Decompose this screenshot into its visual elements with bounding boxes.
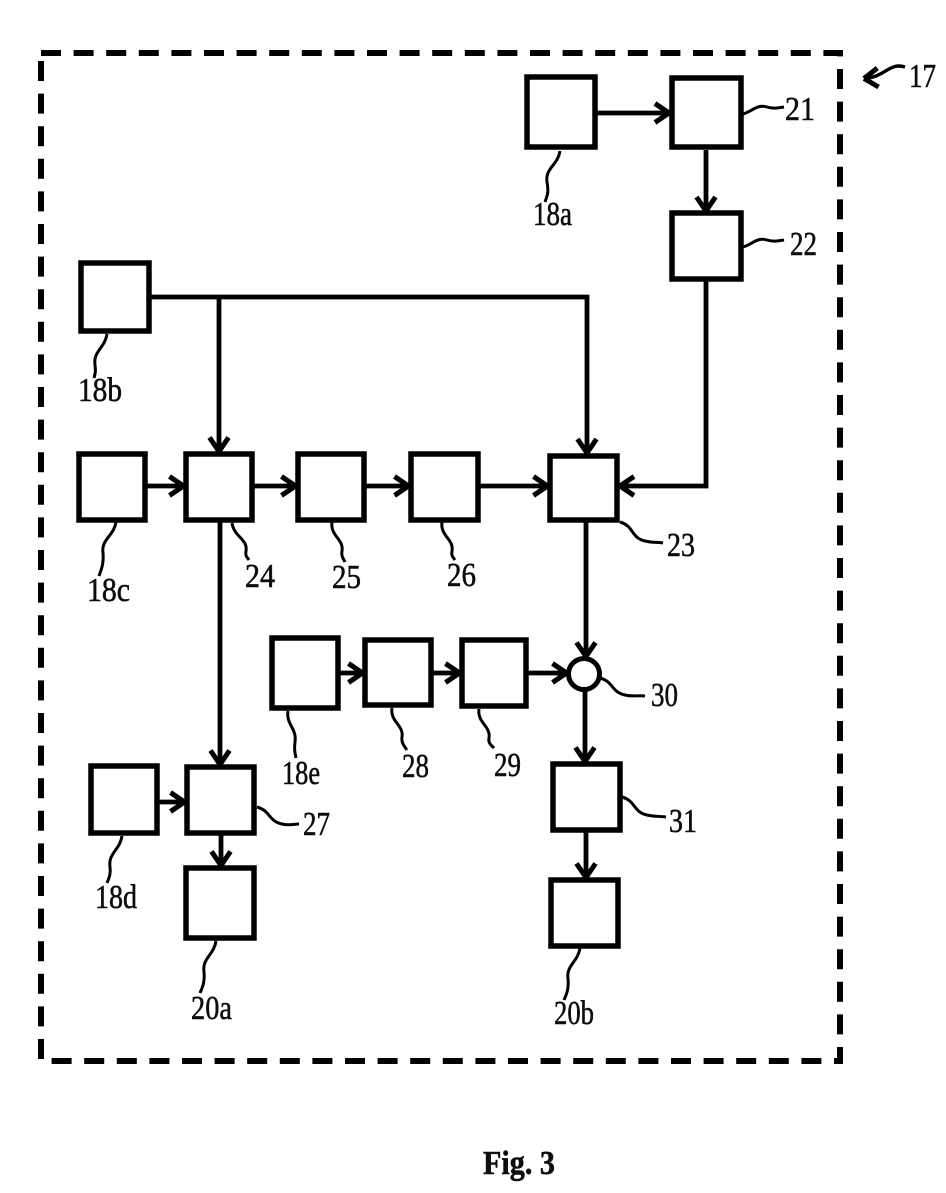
block 27: [187, 767, 254, 833]
leader line 30: [600, 678, 645, 696]
leader line 31: [622, 797, 666, 817]
dashed boundary 17: [41, 53, 840, 1061]
wire 24 to 27: [218, 521, 223, 765]
block 18c: [79, 454, 145, 520]
leader line 23: [620, 522, 663, 543]
block 20a: [186, 868, 254, 938]
svg-text:Fig. 3: Fig. 3: [483, 1145, 555, 1182]
leader line 22: [743, 239, 784, 247]
svg-text:21: 21: [785, 91, 815, 128]
leader line 25: [332, 522, 345, 562]
arrow to boundary 17: [864, 66, 905, 79]
svg-text:25: 25: [332, 559, 361, 596]
svg-text:20a: 20a: [191, 990, 232, 1027]
svg-text:18e: 18e: [282, 755, 320, 792]
block 22: [672, 213, 741, 279]
block 23: [550, 456, 617, 520]
leader line 20b: [564, 948, 580, 1000]
block 18a: [527, 77, 595, 147]
wire 22 to 23: [620, 281, 706, 486]
leader line 18a: [545, 151, 560, 202]
svg-text:26: 26: [447, 557, 476, 594]
leader line 18d: [107, 836, 122, 883]
leader line 29: [479, 709, 494, 748]
wire branch to 24: [217, 297, 222, 452]
wire 28 to 29: [431, 671, 460, 676]
block 18d: [91, 766, 157, 833]
wire 18d to 27: [157, 800, 185, 805]
block 24: [186, 454, 252, 520]
wire 31 to 20b: [584, 830, 589, 878]
block 21: [672, 78, 741, 147]
wire 18e to 28: [339, 671, 363, 676]
wire 25 to 26: [365, 484, 409, 489]
svg-text:20b: 20b: [554, 995, 594, 1032]
block 26: [411, 454, 478, 520]
wire 18a to 21: [596, 111, 669, 116]
svg-text:30: 30: [651, 677, 678, 714]
wire 24 to 25: [253, 484, 296, 489]
wire 29 to 30: [526, 671, 567, 676]
wire 27 to 20a: [219, 833, 224, 866]
wire 26 to 23: [478, 484, 548, 489]
svg-text:22: 22: [790, 226, 817, 263]
block 29: [462, 640, 526, 706]
svg-text:29: 29: [494, 747, 521, 784]
svg-text:28: 28: [402, 748, 429, 785]
svg-text:24: 24: [245, 558, 275, 595]
block 28: [365, 640, 431, 705]
svg-text:17: 17: [909, 58, 936, 95]
leader line 24: [232, 523, 249, 560]
svg-text:18d: 18d: [95, 879, 137, 916]
svg-text:23: 23: [667, 527, 695, 564]
leader line 26: [442, 522, 455, 560]
block 20b: [551, 880, 618, 946]
block 18e: [272, 638, 338, 708]
leader line 21: [743, 106, 784, 114]
leader line 18e: [288, 711, 296, 758]
block 25: [298, 454, 364, 520]
leader line 27: [257, 807, 299, 825]
wire 23 to 30: [584, 522, 589, 657]
leader line 28: [392, 708, 407, 750]
svg-text:27: 27: [303, 806, 330, 843]
svg-text:18a: 18a: [533, 196, 572, 233]
svg-text:31: 31: [669, 803, 697, 840]
svg-text:18b: 18b: [78, 372, 122, 409]
block 31: [553, 764, 620, 830]
leader line 18c: [99, 522, 116, 576]
block 18b: [81, 263, 149, 331]
wire 18b to node: [150, 297, 587, 453]
wire 30 to 31: [583, 689, 588, 762]
leader line 18b: [94, 334, 107, 378]
wire 21 to 22: [704, 150, 709, 211]
leader line 20a: [200, 941, 216, 993]
svg-text:18c: 18c: [87, 572, 130, 609]
summing junction 30: [569, 659, 600, 690]
wire 18c to 24: [146, 484, 184, 489]
